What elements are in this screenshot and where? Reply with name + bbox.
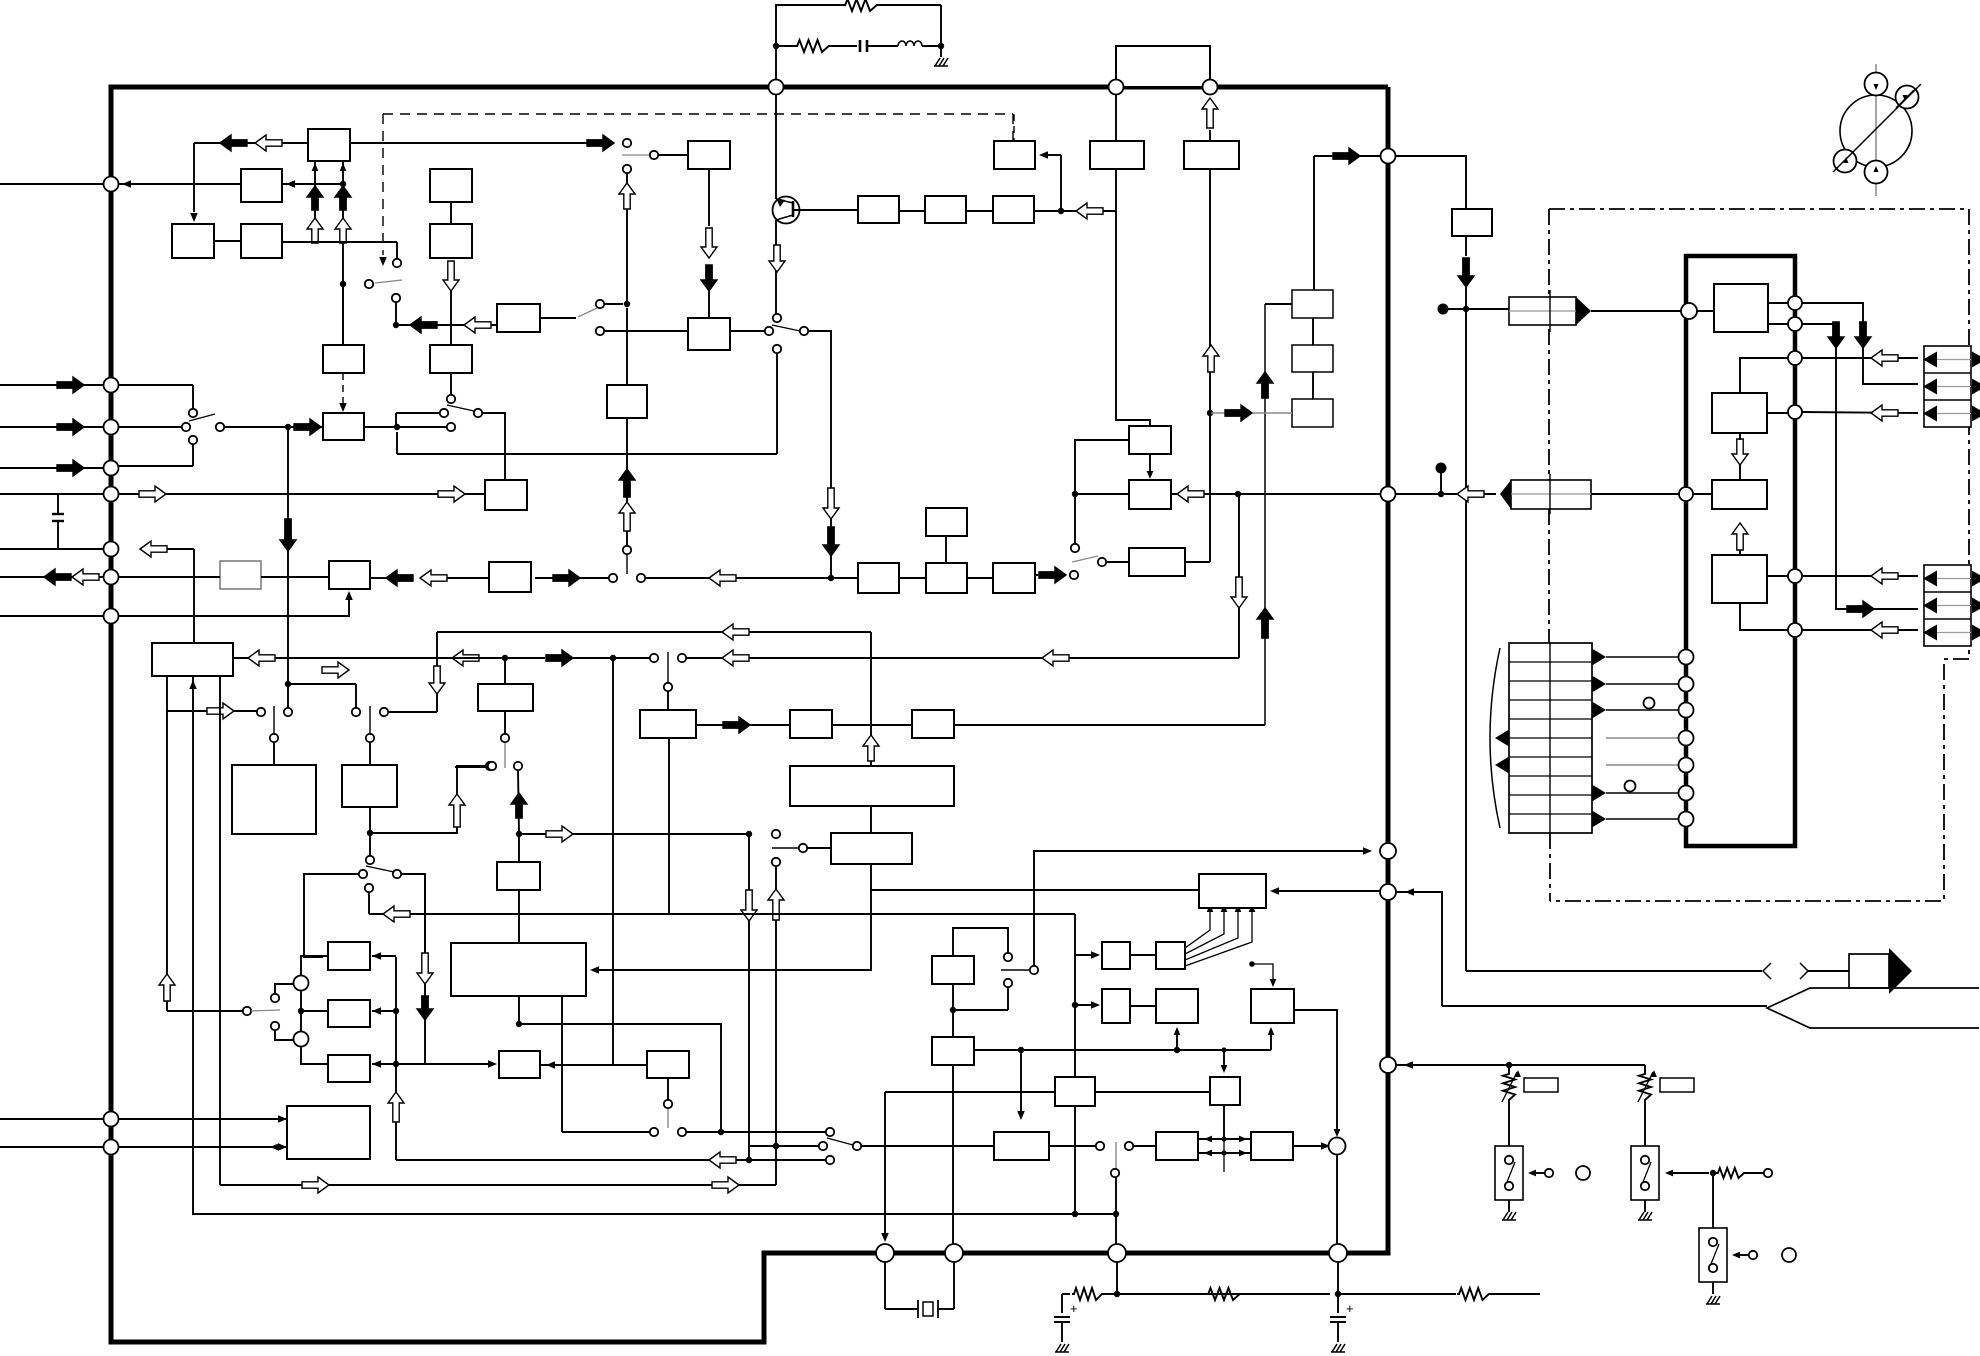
wire — [1712, 1173, 1714, 1228]
wire — [967, 577, 993, 579]
open left arrow — [1076, 203, 1103, 219]
vertical x194top — [193, 549, 195, 643]
wire — [1312, 318, 1314, 345]
wire — [518, 834, 520, 862]
solid right arrow — [723, 717, 750, 733]
block BX5 — [831, 833, 912, 864]
wire — [369, 742, 371, 765]
arrowhead — [1321, 1142, 1330, 1150]
vertical x627 — [626, 173, 628, 304]
block T4 — [1055, 1077, 1095, 1106]
open left arrow — [1871, 568, 1898, 584]
wire — [775, 220, 777, 314]
block BIGR — [790, 766, 954, 806]
connector circle — [1788, 351, 1802, 365]
open left arrow — [709, 570, 736, 586]
wire — [1223, 1106, 1225, 1139]
block P1 — [994, 141, 1035, 169]
switch contact — [1004, 953, 1012, 961]
block BIG1 — [232, 765, 316, 834]
switch contact — [440, 409, 448, 417]
junction — [516, 1021, 522, 1027]
solid right arrow — [57, 419, 84, 435]
switch SW2 — [1631, 1146, 1659, 1200]
wire — [562, 1131, 650, 1133]
solid down arrow — [701, 265, 717, 291]
sum circle A2 — [294, 1032, 309, 1047]
wire — [193, 143, 195, 212]
solid left arrow — [410, 317, 437, 333]
wire x1034 — [1034, 851, 1366, 966]
solid up arrow — [1257, 372, 1273, 398]
wire — [1767, 575, 1788, 577]
ground — [1639, 1212, 1644, 1220]
switch contact — [1749, 1251, 1757, 1259]
switch contact — [270, 734, 278, 742]
junction — [340, 181, 346, 187]
solid down arrow — [1855, 322, 1871, 348]
open left arrow — [722, 650, 749, 666]
free contact — [1644, 698, 1655, 709]
block (top jumper box) — [1116, 46, 1210, 87]
switch blade — [366, 866, 394, 872]
switch contact — [284, 708, 292, 716]
block SM2 — [328, 1000, 370, 1027]
vertical x288 — [287, 427, 289, 708]
wire T6 out — [1293, 1145, 1326, 1147]
wire — [194, 142, 308, 144]
switch contact — [1545, 1169, 1553, 1177]
connector circle m4 — [1679, 731, 1694, 746]
junction — [1249, 961, 1255, 967]
junction — [1113, 1211, 1119, 1217]
arrowhead into P1 — [1039, 151, 1048, 159]
open left arrow — [420, 570, 447, 586]
wire corner — [396, 242, 398, 259]
solid up arrow — [619, 469, 635, 497]
connector circle m5 — [1679, 758, 1694, 773]
wire — [1668, 1172, 1709, 1174]
connector circle B1 — [876, 1244, 894, 1262]
open right arrow — [438, 486, 465, 502]
switch contact — [772, 858, 780, 866]
wire M8b down — [952, 1065, 954, 1244]
wire — [1060, 155, 1062, 211]
block D2b — [1129, 548, 1185, 576]
wire DSP right — [1277, 890, 1380, 892]
switch contact — [664, 683, 672, 691]
crystal X1 — [884, 1262, 886, 1309]
wire — [1314, 155, 1380, 157]
open up arrow — [159, 974, 175, 1001]
wire — [1802, 357, 1918, 359]
wire — [118, 465, 193, 467]
open down arrow — [769, 245, 785, 272]
open left arrow — [255, 135, 282, 151]
open right arrow — [207, 703, 234, 719]
wire — [118, 1118, 287, 1120]
solid up arrow — [511, 793, 527, 818]
open down arrow — [741, 890, 757, 921]
wire — [167, 548, 194, 550]
vertical x1075 — [1074, 914, 1076, 1077]
switch blade D2row — [1072, 556, 1098, 562]
switch contact — [365, 884, 373, 892]
block M8 — [932, 956, 974, 984]
vertical x425 — [424, 874, 426, 1064]
wire — [1020, 1050, 1022, 1114]
wire L2b — [437, 657, 545, 659]
junction — [828, 575, 834, 581]
wire — [396, 412, 439, 414]
open up arrow — [768, 889, 784, 920]
block BX2 — [640, 710, 696, 738]
trimmer RV1 — [1508, 1065, 1510, 1072]
connector circle L3 — [104, 420, 119, 435]
open left arrow — [1042, 650, 1069, 666]
head amp thick box — [1686, 256, 1795, 846]
wire — [749, 1145, 819, 1147]
arrowhead — [345, 591, 353, 600]
switch bar — [369, 706, 371, 734]
junction — [624, 301, 630, 307]
connector circle m7 — [1679, 812, 1694, 827]
wire — [604, 303, 623, 305]
wire — [1133, 1145, 1156, 1147]
block T1 — [308, 129, 350, 161]
wire x518 down — [518, 770, 519, 834]
switch blade — [251, 1010, 280, 1011]
wire — [275, 984, 294, 994]
block M1 — [323, 413, 364, 440]
block E2 — [430, 224, 472, 258]
vertical x1314 — [1313, 156, 1315, 290]
solid up arrow — [1257, 608, 1273, 638]
wire — [1337, 1262, 1339, 1294]
wire — [807, 847, 831, 849]
solid up arrow — [307, 186, 323, 210]
wire — [832, 724, 912, 726]
block T7 — [1210, 1077, 1240, 1105]
junction — [950, 1007, 956, 1013]
open right arrow — [139, 486, 166, 502]
switch contact — [650, 151, 658, 159]
open down arrow — [429, 666, 445, 694]
connector circle m6 — [1679, 786, 1694, 801]
junction — [746, 831, 752, 837]
wire — [696, 724, 790, 726]
wire L1 — [437, 631, 871, 633]
dashed stub — [1013, 114, 1015, 141]
block BXL — [497, 862, 540, 890]
block R2 — [858, 563, 899, 593]
wire — [899, 210, 925, 212]
wire — [899, 577, 926, 579]
arrowhead — [190, 213, 198, 222]
block B6 — [152, 643, 233, 676]
main PCB border (thick) — [111, 87, 1388, 1342]
junction — [1018, 1047, 1024, 1053]
wire — [1007, 987, 1009, 1010]
wire — [401, 874, 425, 953]
connector circle B4 — [1329, 1244, 1347, 1262]
terminal bullet — [1436, 463, 1447, 474]
wire — [519, 1024, 721, 1132]
transistor Q1 — [773, 197, 800, 224]
arrowhead into X2r — [546, 1061, 555, 1069]
block BX3 — [790, 710, 832, 738]
wire — [1115, 1177, 1117, 1214]
switch contact — [366, 734, 374, 742]
connector circle L1 — [104, 177, 119, 192]
wire y454 — [397, 453, 777, 455]
dashed arrow to M1 — [342, 373, 344, 407]
open up arrow — [307, 218, 323, 243]
wire left in7 — [0, 615, 104, 617]
wire — [118, 426, 182, 428]
arrowhead into B6 — [189, 680, 197, 689]
block IN1 — [287, 1106, 370, 1159]
cable arrow out — [1849, 954, 1889, 988]
wire — [300, 990, 302, 1011]
block T3 — [994, 1132, 1049, 1160]
junction — [285, 681, 291, 687]
wire — [686, 1131, 826, 1133]
wire — [518, 890, 520, 1024]
arrowhead — [270, 1143, 279, 1151]
block G2grey — [220, 561, 261, 589]
connector circle L9 — [104, 1112, 119, 1127]
wire — [760, 577, 858, 579]
wire — [658, 154, 688, 156]
switch contact — [1125, 1142, 1133, 1150]
switch contact — [393, 259, 401, 267]
wire — [455, 766, 488, 768]
wire — [667, 691, 669, 710]
block C1b — [1129, 426, 1171, 454]
arrowhead — [278, 1115, 287, 1123]
ground G1 — [935, 58, 940, 66]
wire — [861, 1145, 994, 1147]
switch bar — [273, 706, 275, 734]
wire left in5 — [0, 493, 104, 495]
wire M4 out — [369, 807, 371, 830]
switch contact — [352, 708, 360, 716]
wire left in9 — [0, 1146, 104, 1148]
wire top loop — [776, 5, 843, 46]
wire y914 — [369, 913, 1075, 915]
wire y578 — [535, 577, 609, 579]
vertical x613 long — [612, 658, 614, 1065]
connector circle L8 — [104, 609, 119, 624]
wire — [1117, 1293, 1330, 1295]
wire — [282, 183, 343, 185]
open up arrow — [863, 735, 879, 761]
connector circle m2 — [1679, 677, 1694, 692]
switch blade — [1001, 969, 1029, 971]
wire M8 top — [953, 928, 1008, 956]
sum circle A1 — [294, 976, 309, 991]
arrowhead — [1334, 1129, 1341, 1137]
head drum — [1840, 95, 1912, 167]
junction — [1335, 1291, 1341, 1297]
junction — [502, 655, 508, 661]
block BB2 — [1184, 141, 1239, 169]
connector circle — [1788, 296, 1802, 310]
switch contact — [772, 830, 780, 838]
wire — [224, 426, 323, 428]
block BIGL — [451, 943, 586, 996]
junction — [718, 1129, 724, 1135]
wire — [604, 330, 688, 332]
block DSP — [1199, 874, 1266, 908]
solid down arrow — [1828, 322, 1844, 348]
dash-dot region border — [1549, 209, 1969, 901]
wire — [954, 724, 1265, 726]
open down arrow — [417, 953, 433, 984]
switch contact — [609, 574, 617, 582]
wire left in8 — [0, 1118, 104, 1120]
block TR2 — [925, 196, 966, 223]
switch contact — [637, 574, 645, 582]
connector circle L4 — [104, 461, 119, 476]
wire — [1466, 308, 1509, 310]
wire — [775, 46, 777, 80]
connector circle — [1380, 1057, 1396, 1073]
switch contact — [1764, 1169, 1772, 1177]
wire y684 — [288, 683, 356, 685]
wire S2 out — [730, 330, 765, 332]
wire — [775, 94, 777, 199]
wire — [118, 384, 193, 386]
switch blade — [578, 308, 597, 317]
junction — [298, 1008, 304, 1014]
solid down arrow — [823, 527, 839, 556]
arrowhead — [1270, 887, 1279, 895]
wire — [388, 711, 437, 713]
wire — [870, 806, 872, 833]
wire y494 — [118, 493, 485, 495]
vertical x1210 — [1209, 169, 1211, 562]
connector circle — [1380, 843, 1396, 859]
wire B4-row — [282, 241, 397, 243]
wire — [504, 658, 506, 684]
resistor R5 — [1457, 1288, 1491, 1300]
wire — [560, 1064, 614, 1066]
wire y1050 — [974, 1049, 1271, 1051]
switch contact — [1098, 558, 1106, 566]
connector stack upper — [1924, 346, 1971, 427]
connector circle P-top1 — [769, 80, 784, 95]
connector circle — [1788, 623, 1802, 637]
open up arrow — [388, 1092, 404, 1122]
switch bar — [626, 555, 628, 574]
open left arrow — [248, 650, 275, 666]
wire — [395, 413, 397, 427]
switch contact — [447, 423, 455, 431]
arrowhead — [278, 1143, 287, 1151]
switch contact — [800, 327, 808, 335]
floating open right arrow — [322, 662, 349, 678]
arrowhead into circle — [122, 180, 131, 188]
open left arrow — [722, 624, 749, 640]
wire left in1 — [0, 183, 104, 185]
wire T7 top — [1223, 1050, 1225, 1068]
wire y1160 — [396, 1159, 826, 1161]
ground — [1056, 1344, 1061, 1352]
resistor R4 — [1206, 1288, 1242, 1300]
connector block (multi-pin) — [1509, 643, 1592, 833]
switch contact — [271, 1022, 279, 1030]
switch blade — [827, 1138, 853, 1145]
connector circle L5 — [104, 487, 119, 502]
left diamonds — [1495, 730, 1509, 747]
open left arrow — [464, 317, 491, 333]
wire — [1802, 324, 1918, 609]
block R3 — [926, 563, 967, 593]
wire — [370, 766, 487, 833]
block R1 — [1452, 209, 1492, 236]
switch contact — [623, 546, 631, 554]
wire — [1336, 1155, 1338, 1244]
open up arrow — [449, 794, 465, 827]
connector circle — [1788, 405, 1802, 419]
block TR1 — [858, 196, 899, 223]
connector circle P-top2 — [1109, 80, 1124, 95]
switch contact — [678, 1128, 686, 1136]
open up arrow — [1203, 345, 1219, 372]
connector stack lower — [1924, 565, 1971, 646]
block E1 — [430, 169, 472, 202]
block F1 — [1102, 942, 1130, 969]
junction — [773, 1143, 779, 1149]
switch contact — [1004, 979, 1012, 987]
wire — [1130, 1005, 1156, 1007]
block FAN — [1156, 942, 1185, 969]
arrowhead — [1091, 951, 1100, 959]
sum circle B — [1329, 1138, 1346, 1155]
solid right arrow — [587, 135, 614, 151]
junction — [1710, 1170, 1716, 1176]
vertical x885 — [884, 1092, 886, 1236]
junction — [1221, 1047, 1226, 1052]
block V1 — [607, 385, 647, 418]
wire — [626, 418, 628, 546]
junction — [1174, 1047, 1180, 1053]
junction — [1463, 306, 1469, 312]
switch contact — [216, 423, 224, 431]
arrowhead into SM1 — [372, 952, 381, 960]
block BB1 — [1090, 141, 1144, 169]
arrowhead — [881, 1233, 889, 1242]
junction — [1072, 1002, 1078, 1008]
wire — [368, 892, 370, 914]
wire L2 — [233, 657, 437, 659]
wire y971 — [1466, 970, 1762, 972]
solid right arrow — [57, 460, 84, 476]
arrowhead — [1405, 888, 1414, 896]
block U1 — [1712, 393, 1767, 433]
wire — [1465, 287, 1467, 309]
vertical x669 — [668, 738, 670, 914]
wire — [1338, 1293, 1456, 1295]
switch contact — [765, 327, 773, 335]
svg-text:+: + — [1346, 1301, 1354, 1316]
wire — [614, 1064, 647, 1066]
ground — [1503, 1212, 1508, 1220]
solid right arrow — [57, 377, 84, 393]
arrowhead — [1270, 979, 1277, 987]
